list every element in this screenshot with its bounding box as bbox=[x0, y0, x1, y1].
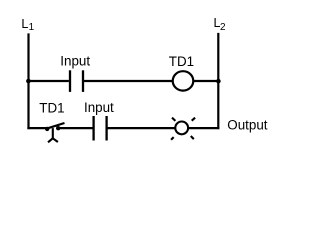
ray NE bbox=[192, 118, 195, 121]
svg-text:TD1: TD1 bbox=[39, 100, 64, 115]
arrow barb right bbox=[53, 138, 58, 142]
power rail L1 bbox=[27, 33, 29, 129]
contact TD1 (normally-open timed-closed switch) bbox=[45, 123, 65, 142]
node junction L2 / rung 1 bbox=[216, 79, 221, 84]
pivot node bbox=[45, 127, 49, 131]
svg-text:Input: Input bbox=[84, 100, 114, 115]
wire rung2: Input contact to lamp bbox=[107, 127, 176, 129]
svg-text:Input: Input bbox=[60, 54, 90, 69]
svg-text:L: L bbox=[21, 17, 28, 31]
contact Input (normally-open, rung 2) bbox=[94, 116, 107, 141]
ray SW bbox=[171, 137, 174, 140]
wire rung1: coil TD1 to L2 rail bbox=[193, 80, 220, 82]
svg-text:TD1: TD1 bbox=[169, 54, 194, 69]
lamp Output bbox=[171, 118, 195, 140]
wire rung2: TD1 contact to Input contact bbox=[58, 127, 92, 129]
arrow barb left bbox=[48, 138, 53, 142]
wire rung1: L1 rail to Input contact bbox=[27, 80, 69, 82]
ray SE bbox=[191, 136, 194, 139]
wire rung2: L1 rail to TD1 contact bbox=[27, 127, 47, 129]
svg-text:Output: Output bbox=[227, 117, 267, 132]
power rail L2 bbox=[217, 33, 219, 129]
time-delay arrow shaft bbox=[52, 128, 54, 138]
wire rung1: Input contact to coil TD1 bbox=[83, 80, 173, 82]
switch blade bbox=[46, 123, 65, 129]
node junction L1 / rung 1 bbox=[26, 79, 31, 84]
contact Input (normally-open, rung 1) bbox=[70, 70, 83, 92]
throw node bbox=[56, 126, 60, 130]
ray NW bbox=[172, 118, 175, 121]
wire rung2: lamp to L2 rail bbox=[188, 127, 219, 129]
svg-text:2: 2 bbox=[220, 22, 226, 33]
relay coil TD1 bbox=[173, 71, 194, 90]
svg-text:1: 1 bbox=[29, 22, 35, 33]
